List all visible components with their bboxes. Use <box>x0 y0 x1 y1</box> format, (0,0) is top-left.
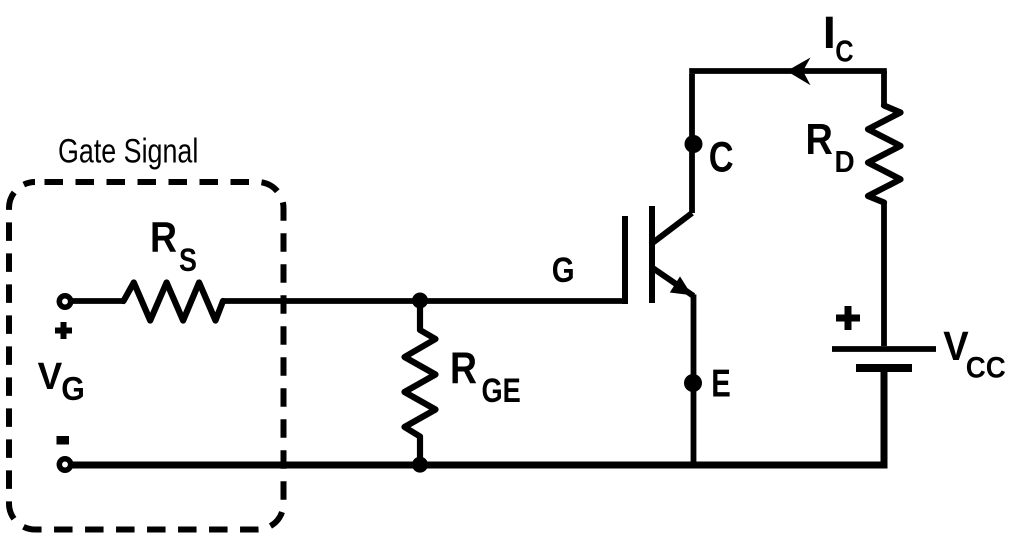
svg-text:D: D <box>835 145 855 180</box>
svg-text:E: E <box>711 363 731 406</box>
label I_C <box>823 7 836 58</box>
label E <box>711 363 731 406</box>
label V_G <box>38 354 63 397</box>
svg-text:GE: GE <box>482 371 521 410</box>
svg-text:C: C <box>709 134 734 181</box>
wire: V_G plus terminal to R_S <box>73 298 126 304</box>
label Gate Signal <box>58 133 198 171</box>
wire: right vertical lower + bottom rail <box>73 368 885 465</box>
transistor Q1 IGBT: emitter diagonal <box>651 267 694 297</box>
svg-text:G: G <box>552 251 575 290</box>
svg-text:I: I <box>823 7 836 58</box>
svg-text:R: R <box>806 115 833 164</box>
transistor Q1 IGBT: collector diagonal <box>651 213 693 245</box>
node E dot <box>684 374 702 392</box>
wire: emitter vertical <box>691 295 697 466</box>
resistor R_S <box>124 283 224 321</box>
svg-text:CC: CC <box>966 352 1006 385</box>
wire: right vertical upper <box>881 71 887 107</box>
svg-text:R: R <box>150 214 177 261</box>
label V_CC <box>943 324 969 370</box>
svg-text:S: S <box>179 243 197 279</box>
label R_S <box>150 214 177 261</box>
label + (V_G polarity) <box>55 322 72 339</box>
label - (V_G polarity) <box>57 436 70 445</box>
wire: collector vertical <box>689 74 695 213</box>
svg-text:R: R <box>450 343 477 393</box>
wire: gate wire from R_S to IGBT gate <box>222 298 628 304</box>
node: gate junction dot <box>412 293 428 309</box>
transistor Q1 IGBT: emitter arrow <box>670 276 692 295</box>
transistor Q1 IGBT: gate bar <box>622 216 628 304</box>
svg-text:G: G <box>61 370 85 407</box>
node C dot <box>685 135 703 153</box>
label C <box>709 134 734 181</box>
svg-text:C: C <box>835 34 853 69</box>
battery + sign <box>836 306 860 330</box>
node: bottom junction dot <box>412 457 428 473</box>
svg-text:Gate Signal: Gate Signal <box>58 133 198 171</box>
label G <box>552 251 575 290</box>
label R_GE <box>450 343 477 393</box>
terminal: V_G negative output <box>59 459 70 470</box>
dashed enclosure: Gate Signal box <box>9 182 284 530</box>
current arrow I_C <box>787 58 811 86</box>
wire: right vertical middle <box>881 203 887 347</box>
label R_D <box>806 115 833 164</box>
terminal: V_G positive output <box>59 296 70 307</box>
resistor R_D <box>868 106 901 203</box>
svg-text:V: V <box>38 354 63 397</box>
wire: top rail <box>689 68 887 74</box>
battery V_CC negative plate <box>856 364 912 372</box>
battery V_CC positive plate <box>832 346 936 352</box>
transistor Q1 IGBT: body bar <box>649 206 655 303</box>
resistor R_GE (with leads) <box>405 301 436 465</box>
